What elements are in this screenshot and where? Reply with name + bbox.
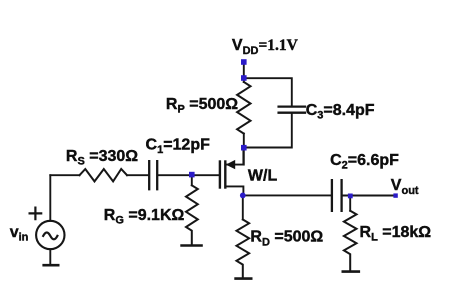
wire RL lead [349,198,351,211]
wire RD lead [242,198,244,220]
node Vout terminal [393,193,397,197]
transistor arrow on drain [226,160,235,169]
svg-text:RD =500Ω: RD =500Ω [250,229,323,249]
power net VDD column wire [243,65,245,83]
ground below vin [44,264,59,267]
node gate [189,172,195,178]
resistor RG 9.1K [186,185,198,245]
node source junction [240,193,246,199]
wire branch to C3 top [244,78,292,105]
wire RP bottom to drain node [243,134,245,165]
svg-text:VDD=1.1V: VDD=1.1V [232,37,299,57]
wire drain lead [226,148,243,165]
wire C2 to Vout [343,195,394,197]
svg-text:RL =18kΩ: RL =18kΩ [360,224,432,244]
svg-text:W/L: W/L [248,168,278,185]
node drain junction [241,145,247,151]
node VDD branch [241,75,247,81]
svg-text:RP =500Ω: RP =500Ω [166,96,238,116]
wire RS to C1 [127,174,148,176]
transistor M1 gate bar [219,162,221,188]
wire vin top lead [49,175,51,221]
tilde inside source [43,233,57,240]
svg-text:C2=6.6pF: C2=6.6pF [330,152,399,172]
capacitor C1 12pF [149,161,157,189]
ground below RL [343,270,359,273]
capacitor C2 6.6pF [332,180,342,211]
resistor RP 500 ohm [237,82,250,134]
wire vin to RS [50,174,79,176]
ground below RG [182,244,202,247]
capacitor C3 8.4pF [279,107,305,113]
resistor RS 330 ohm [80,169,128,181]
resistor RD 500 ohm [237,220,250,279]
transistor M1 channel bar [224,162,226,188]
wire source node to C2 [243,194,331,196]
node VDD terminal [241,59,247,65]
ground below RD [236,277,252,280]
plus sign polarity mark [30,208,42,220]
wire vin bottom lead [49,249,51,265]
wire C1 to gate [158,175,219,185]
resistor RL 18k [344,211,357,272]
source V1 vin (AC source circle) [36,221,64,249]
node C2 output junction [348,194,353,199]
wire source lead [226,186,243,195]
svg-text:C1=12pF: C1=12pF [146,136,211,156]
svg-text:C3=8.4pF: C3=8.4pF [306,102,375,122]
wire C3 bottom to drain node [244,114,292,148]
svg-text:RS =330Ω: RS =330Ω [66,148,138,168]
